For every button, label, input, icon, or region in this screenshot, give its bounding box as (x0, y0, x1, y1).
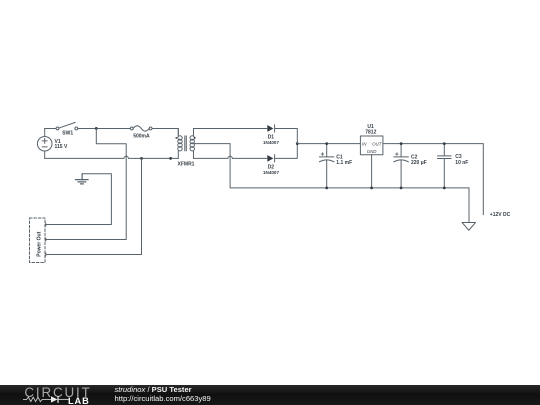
svg-text:7812: 7812 (365, 129, 376, 135)
svg-text:GND: GND (367, 149, 378, 154)
node C3 top (443, 142, 446, 145)
node junction bottom rail transformer pin (169, 157, 172, 160)
wire output node to U1 IN (297, 143, 360, 145)
svg-text:+12V DC: +12V DC (490, 212, 511, 218)
svg-text:500mA: 500mA (133, 133, 150, 139)
node C1 bottom (325, 186, 328, 189)
capacitor C1 (319, 144, 334, 188)
svg-text:LAB: LAB (68, 396, 90, 405)
ground (output) (462, 222, 476, 230)
wire bottom rail V1 to transformer primary bottom (hop at x=126.2) (45, 156, 179, 158)
svg-text:C3: C3 (455, 154, 462, 160)
svg-text:10 nF: 10 nF (455, 160, 468, 166)
svg-text:OUT: OUT (372, 141, 382, 146)
diode D1 (267, 125, 274, 132)
ground (power out) (75, 174, 88, 184)
node C2 bottom (400, 186, 403, 189)
svg-text:1N4007: 1N4007 (263, 170, 280, 175)
switch SW1 (56, 122, 78, 129)
node C1 top (325, 142, 328, 145)
svg-text:SW1: SW1 (62, 131, 73, 137)
op-amp U1 regulator 7812 box (360, 136, 383, 155)
wire bottom rail to Power Out pin 3 (46, 158, 142, 254)
wire Power Out pin 1 to ground (46, 174, 111, 225)
node U1 GND (370, 186, 373, 189)
diode D2 (267, 155, 274, 162)
CircuitLab logo (18, 384, 113, 405)
svg-text:XFMR1: XFMR1 (178, 162, 195, 168)
svg-text:115 V: 115 V (55, 144, 68, 150)
wire U1 GND to ground rail (371, 155, 373, 188)
wire D2 to output node (275, 144, 298, 159)
wire secondary top to D1 (194, 127, 267, 129)
node C2 top (400, 142, 403, 145)
wire D1 to output node (275, 128, 298, 143)
svg-text:1N4007: 1N4007 (263, 140, 280, 145)
node junction on top rail (95, 127, 98, 130)
wire hot tap from top rail to Power Out pin 2 (46, 128, 126, 239)
fuse F1 500mA (130, 126, 152, 131)
svg-text:1.1 mF: 1.1 mF (336, 160, 352, 166)
connector Power Out (30, 218, 46, 263)
wire top rail V1 to SW1 (45, 127, 56, 129)
node C3 bottom (443, 186, 446, 189)
wire U1 OUT to +12V corner (383, 144, 483, 215)
node junction bottom rail pin3 (140, 157, 143, 160)
wire ground rail to ground symbol (468, 188, 470, 223)
svg-text:Power Out: Power Out (36, 231, 42, 256)
wire center tap to ground rail (192, 144, 469, 188)
wire SW1 to fuse (78, 127, 131, 129)
wire secondary bottom to D2 (hop at x=230.1) (194, 156, 267, 158)
node rectifier output (296, 142, 299, 145)
svg-text:220 µF: 220 µF (411, 160, 427, 166)
transformer XFMR1 (175, 128, 195, 158)
capacitor C3 (438, 144, 452, 188)
voltage source V1 (37, 128, 52, 158)
capacitor C2 (394, 144, 409, 188)
footer bar (0, 385, 540, 405)
wire fuse to transformer primary top (152, 128, 178, 135)
